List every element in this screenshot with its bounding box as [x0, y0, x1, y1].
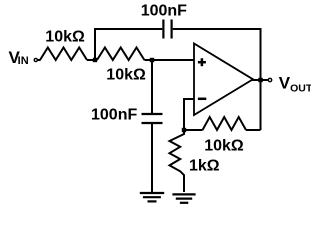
wire node A up to top rail — [95, 29, 162, 60]
svg-text:VOUT: VOUT — [279, 74, 311, 95]
op-amp minus input marking — [198, 98, 206, 101]
wire input to R1 — [37, 59, 40, 61]
resistor R3 10k feedback — [203, 117, 247, 130]
resistor R1 10k — [40, 48, 87, 61]
wire C2 to ground — [151, 124, 153, 192]
output terminal — [268, 78, 271, 81]
feedback node junction — [182, 128, 186, 132]
input terminal VIN — [34, 58, 37, 61]
output junction — [258, 78, 262, 82]
op-amp plus input marking — [198, 58, 206, 66]
svg-text:100nF: 100nF — [91, 107, 137, 124]
wire node B down to C2 — [151, 60, 153, 113]
node B junction — [150, 58, 154, 62]
wire feedback node to R3 — [184, 129, 203, 131]
svg-text:10kΩ: 10kΩ — [106, 66, 146, 83]
capacitor C1 100nF — [162, 20, 164, 39]
svg-text:VIN: VIN — [9, 48, 29, 67]
ground for R4 — [172, 194, 195, 202]
resistor R2 10k — [97, 48, 144, 61]
wire op-amp output — [252, 79, 268, 81]
svg-text:10kΩ: 10kΩ — [204, 137, 244, 154]
wire inverting input down to feedback node — [184, 99, 194, 130]
node A junction — [93, 58, 97, 62]
ground for C2 — [140, 193, 164, 201]
wire R1 to node A to R2 — [87, 59, 97, 61]
svg-text:10kΩ: 10kΩ — [45, 28, 85, 45]
svg-text:1kΩ: 1kΩ — [189, 158, 220, 175]
wire R2 to op-amp noninverting input — [144, 59, 194, 61]
resistor R4 1k — [170, 130, 185, 192]
capacitor C2 100nF — [142, 113, 163, 115]
svg-text:100nF: 100nF — [141, 2, 187, 19]
op-amp U1 triangle — [194, 44, 253, 116]
wire top rail right and down to output — [173, 29, 261, 130]
wire R3 to output branch — [246, 129, 261, 131]
